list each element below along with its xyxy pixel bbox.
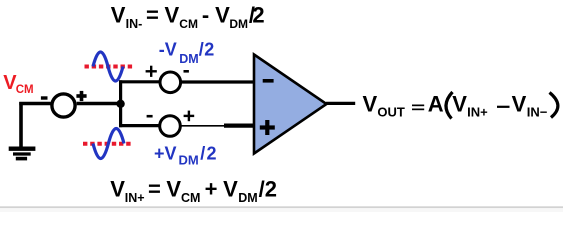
svg-text:=: =	[146, 3, 159, 28]
svg-text:V: V	[165, 3, 180, 28]
svg-text:-V: -V	[159, 40, 177, 60]
bottom strip	[0, 208, 563, 212]
label -VDM/2	[159, 40, 215, 66]
wire ground to VCM source	[19, 102, 51, 105]
svg-text:V: V	[110, 177, 125, 202]
red dashed zero line bottom	[83, 142, 132, 146]
svg-text:IN+: IN+	[467, 105, 488, 120]
wire top branch to top source	[119, 80, 160, 83]
svg-text:V: V	[363, 91, 378, 116]
wire bottom source to op-amp non-inverting input (thick segment)	[224, 123, 255, 127]
wire bottom branch to bottom source	[119, 124, 160, 127]
minus sign of top source	[184, 70, 189, 73]
svg-text:DM: DM	[179, 52, 198, 66]
svg-text:CM: CM	[16, 84, 34, 96]
svg-text:V: V	[223, 177, 238, 202]
svg-text:OUT: OUT	[377, 105, 405, 120]
svg-text:DM: DM	[238, 191, 257, 205]
svg-text:V: V	[512, 91, 527, 116]
junction node	[116, 100, 124, 108]
op-amp inverting input minus symbol	[263, 79, 274, 83]
op-amp non-inverting input plus symbol	[260, 120, 275, 135]
sine wave icon top	[93, 52, 123, 81]
voltage source VCM	[52, 94, 75, 117]
wire junction down to bottom branch	[119, 104, 122, 127]
voltage source -VDM/2 (top)	[160, 72, 181, 93]
minus sign of VCM source	[41, 96, 48, 99]
svg-text:IN-: IN-	[126, 17, 143, 31]
bottom divider line	[0, 206, 563, 208]
svg-text:DM: DM	[179, 153, 199, 168]
equation VIN- = VCM - VDM/2 (top)	[111, 3, 265, 32]
svg-text:CM: CM	[179, 17, 198, 31]
minus sign of bottom source	[147, 115, 153, 118]
svg-text:V: V	[215, 3, 230, 28]
plus sign of bottom source	[184, 111, 195, 122]
svg-text:V: V	[166, 177, 181, 202]
svg-text:DM: DM	[229, 17, 248, 31]
sine wave icon bottom	[93, 129, 124, 159]
svg-text:/2: /2	[259, 177, 277, 202]
svg-text:A: A	[428, 91, 444, 116]
op-amp U1	[254, 55, 327, 154]
ground	[9, 102, 36, 159]
svg-text:+V: +V	[154, 143, 177, 163]
svg-text:IN+: IN+	[125, 191, 145, 205]
equation VOUT = A(VIN+ - VIN-) (right)	[363, 91, 558, 119]
svg-text:V: V	[111, 3, 126, 28]
svg-text:=: =	[148, 177, 161, 202]
svg-text:CM: CM	[181, 191, 200, 205]
label +VDM/2	[154, 143, 218, 167]
red dashed zero line top	[85, 65, 134, 69]
label VCM	[3, 72, 33, 96]
svg-text:/2: /2	[199, 40, 215, 60]
output wire	[326, 102, 355, 105]
wire top source to op-amp inverting input	[181, 80, 255, 83]
svg-text:IN−: IN−	[527, 105, 548, 120]
svg-text:/2: /2	[200, 143, 217, 163]
voltage source +VDM/2 (bottom)	[160, 116, 181, 137]
svg-text:+: +	[205, 177, 218, 202]
plus sign of VCM source	[76, 91, 86, 101]
wire bottom source to op-amp (thin segment)	[181, 125, 224, 127]
equation VIN+ = VCM + VDM/2 (bottom)	[110, 177, 277, 206]
wire VCM source to junction node	[77, 102, 122, 105]
wire junction up to top branch	[119, 80, 122, 104]
svg-text:V: V	[452, 91, 467, 116]
plus sign of top source	[146, 66, 157, 77]
svg-text:-: -	[202, 3, 209, 28]
